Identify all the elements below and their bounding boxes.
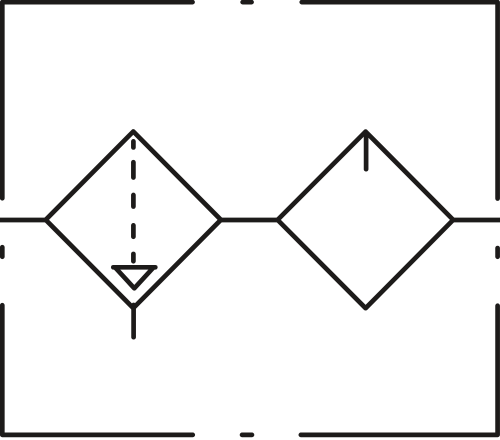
enclosure border top-left corner segment bbox=[2, 2, 192, 198]
wire inlet pipe bbox=[0, 218, 46, 223]
enclosure border bottom dash bbox=[242, 433, 252, 438]
condensate dashed line dash 3 bbox=[131, 195, 136, 207]
condensate dashed line dash 2 bbox=[131, 162, 136, 177]
enclosure border right dash bbox=[495, 248, 500, 257]
condensate dashed line dash 4 bbox=[131, 225, 136, 236]
wire connecting pipe bbox=[220, 218, 278, 223]
filter body (left diamond) bbox=[46, 132, 221, 309]
enclosure border bottom-left corner segment bbox=[2, 305, 192, 435]
enclosure border top-right corner segment bbox=[302, 2, 498, 198]
condensate dashed line dash 1 bbox=[131, 141, 136, 147]
enclosure border top dash bbox=[243, 0, 252, 4]
enclosure border left dash bbox=[0, 247, 5, 257]
manual drain triangle bbox=[116, 268, 153, 288]
manual drain bar bbox=[113, 265, 155, 270]
wire outlet pipe bbox=[453, 218, 500, 223]
enclosure border bottom-right corner segment bbox=[301, 306, 498, 435]
drain stub line bbox=[131, 305, 136, 337]
condensate dashed line dash 5 bbox=[131, 254, 136, 261]
dryer indicator line bbox=[364, 134, 369, 169]
dryer body (right diamond) bbox=[278, 132, 454, 309]
